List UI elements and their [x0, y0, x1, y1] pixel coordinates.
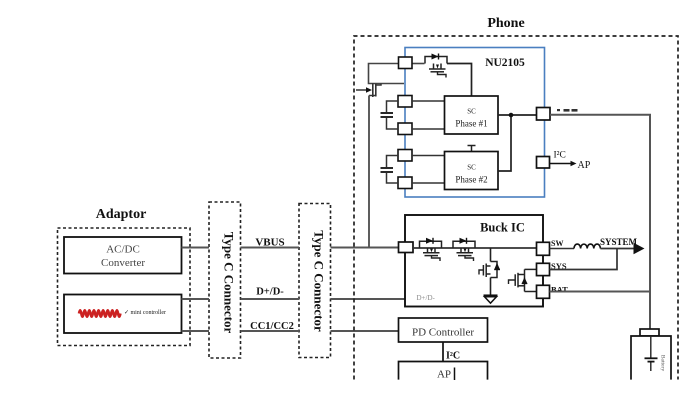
svg-text:VBUS: VBUS	[255, 237, 284, 249]
battery body (clipped at bottom)	[631, 336, 671, 380]
wire pin5 to phase2	[412, 182, 445, 184]
svg-text:I²C: I²C	[446, 351, 460, 362]
wire pin3 to phase1	[412, 128, 445, 130]
transistor Q4 (buck high-side FET B)	[453, 238, 475, 261]
svg-text:CC1/CC2: CC1/CC2	[250, 321, 294, 332]
pin P3	[398, 123, 412, 135]
svg-text:SC: SC	[467, 108, 476, 116]
svg-text:Phone: Phone	[487, 16, 524, 31]
svg-text:✓ mini controller: ✓ mini controller	[124, 310, 166, 316]
tiny smudged label near pin6	[557, 109, 578, 112]
wire BAT to battery	[550, 291, 651, 293]
transistor Q2 with bypass diode (inside NU2105 top)	[425, 54, 447, 78]
SYSTEM arrowhead	[634, 243, 645, 255]
wire pin4 to phase2	[412, 155, 445, 157]
svg-text:D+/D-: D+/D-	[256, 287, 284, 298]
wire CC1/CC2: connector2 to PD controller	[331, 330, 400, 332]
wire CC1/CC2: connector1 to connector2	[241, 330, 300, 332]
Buck IC outline	[405, 215, 543, 307]
svg-text:I²C: I²C	[554, 151, 566, 161]
phone enclosure (dashed, open bottom)	[354, 36, 678, 380]
inductor L1	[574, 244, 600, 248]
wire SYSTEM branch to SYS pin	[550, 249, 618, 270]
Type C connector 2 (dashed)	[299, 204, 331, 358]
SC phase 2 block	[445, 152, 499, 190]
wire SW to inductor	[550, 248, 575, 250]
svg-text:Buck IC: Buck IC	[480, 221, 525, 235]
phase2 top stub	[468, 146, 476, 152]
wire pin1 to bypass FET	[412, 63, 425, 65]
svg-text:AP: AP	[437, 369, 451, 381]
Type C connector 1 (dashed)	[209, 202, 241, 358]
battery terminal	[640, 329, 659, 336]
svg-text:AP: AP	[578, 160, 591, 171]
wire inductor to SYSTEM arrow	[600, 248, 634, 250]
pin BAT	[537, 285, 550, 298]
pin VBUS in (buck)	[399, 242, 414, 253]
wire pin1 to external FET	[369, 64, 405, 84]
AC/DC converter block	[64, 237, 182, 274]
wire rail to low-side FET	[490, 248, 492, 262]
adaptor controller block	[64, 295, 182, 334]
wire charge-pump output to battery (horizontal)	[550, 114, 651, 116]
transistor Q6 (battery FET)	[509, 269, 528, 291]
svg-text:AC/DC: AC/DC	[106, 244, 140, 256]
svg-text:SYSTEM: SYSTEM	[600, 237, 638, 247]
battery cell symbol	[645, 336, 658, 371]
pin SW	[537, 242, 550, 255]
svg-text:BAT: BAT	[551, 285, 568, 295]
transistor Q1 (external input FET)	[356, 83, 381, 97]
svg-text:Type C Connector: Type C Connector	[312, 230, 327, 332]
node junction dot	[509, 113, 514, 118]
wire I2C arrow to AP	[550, 160, 591, 171]
pin P1	[399, 57, 413, 69]
pin SYS	[537, 263, 550, 275]
wire buck input rail	[413, 247, 537, 249]
svg-text:SW: SW	[551, 239, 563, 248]
pin P6 (VOUT)	[537, 108, 551, 121]
svg-text:Phase #2: Phase #2	[455, 175, 487, 185]
wire phase2 output up	[498, 115, 511, 171]
wire Q2 to phase1 top	[447, 64, 472, 97]
capacitor C1 (flying cap phase1)	[381, 101, 399, 129]
capacitor C2 (flying cap phase2)	[381, 156, 399, 184]
red logo squiggle	[79, 310, 120, 317]
svg-text:SC: SC	[467, 164, 476, 172]
wire D+/D-: adaptor to connector1	[182, 298, 210, 300]
svg-text:Converter: Converter	[101, 257, 145, 269]
svg-text:PD Controller: PD Controller	[412, 327, 474, 339]
wire VBUS riser to Q1	[368, 96, 370, 248]
wire D+/D-: connector1 to connector2	[241, 298, 300, 300]
svg-text:Battery: Battery	[660, 355, 666, 371]
svg-text:D+/D-: D+/D-	[417, 294, 436, 302]
wire VBUS: adaptor to connector1	[182, 247, 210, 249]
wire CC1/CC2: adaptor to connector1	[182, 330, 210, 332]
pin P7 (I2C)	[537, 157, 550, 169]
transistor Q3 (buck high-side FET A)	[420, 238, 442, 261]
svg-text:NU2105: NU2105	[485, 57, 525, 69]
wire VBUS: connector2 to Buck IC input pin	[331, 247, 400, 249]
NU2105 chip outline	[405, 48, 545, 198]
wire PD to AP	[442, 342, 444, 362]
wire phase1 output to pin6	[498, 114, 537, 116]
svg-text:Type C Connector: Type C Connector	[222, 232, 237, 334]
transistor Q5 (buck low-side FET)	[479, 262, 500, 278]
wire VBUS: connector1 to connector2	[241, 247, 300, 249]
ground	[484, 295, 498, 303]
svg-text:Phase #1: Phase #1	[455, 119, 487, 129]
wire Q6 to SYS pin	[525, 268, 537, 270]
wire D+/D-: connector2 to Buck IC	[331, 298, 407, 300]
AP block (clipped at bottom)	[399, 362, 488, 381]
pin P2	[398, 96, 412, 108]
wire charge-pump output to battery (vertical)	[649, 115, 651, 329]
pin P5	[398, 177, 412, 189]
svg-text:Adaptor: Adaptor	[96, 207, 147, 222]
wire pin2 to phase1	[412, 100, 445, 102]
SC phase 1 block	[445, 96, 499, 134]
PD controller block	[399, 318, 488, 342]
wire Q5 to ground	[490, 278, 492, 296]
wire Q6 to BAT pin	[525, 291, 537, 293]
adaptor enclosure (dashed)	[58, 228, 191, 346]
pin P4	[398, 150, 412, 162]
